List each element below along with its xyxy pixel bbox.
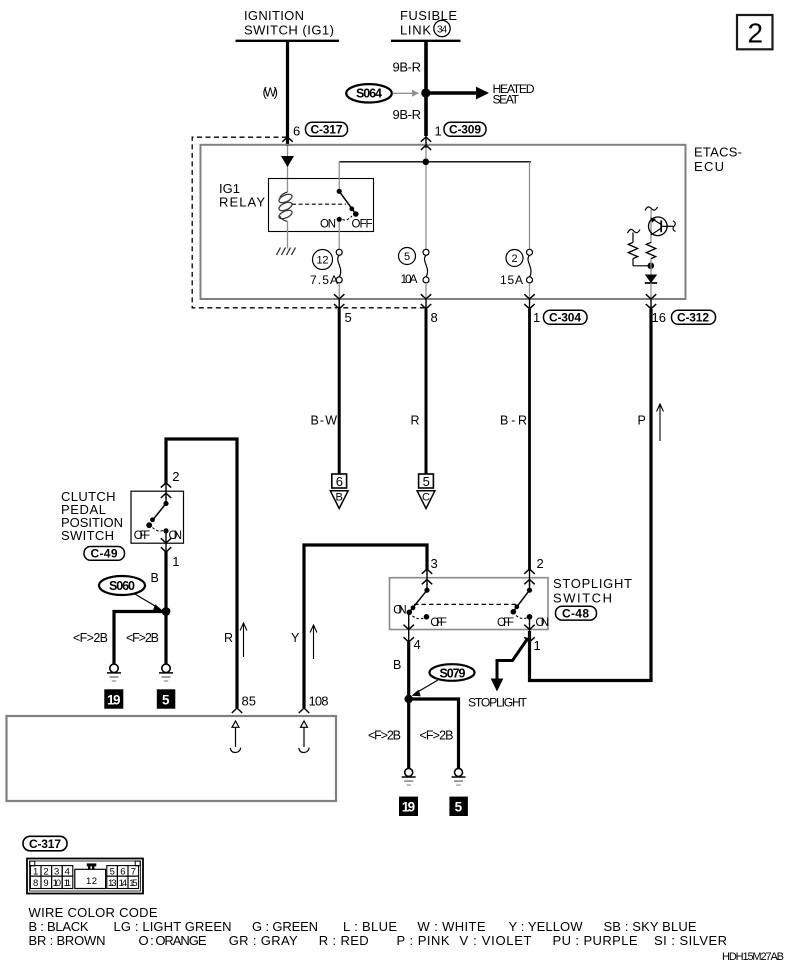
svg-text:C-48: C-48 <box>562 606 589 620</box>
diode D1 <box>645 275 657 284</box>
svg-text:10A: 10A <box>401 272 418 286</box>
connector C-49 <box>84 547 125 561</box>
wire branch to STOPLIGHT arrow <box>497 638 528 679</box>
svg-text:6: 6 <box>293 124 300 139</box>
connector C-317 cells row2 left <box>30 876 72 889</box>
wire2 internal drop to fuse 5 <box>425 146 427 250</box>
svg-text:C-317: C-317 <box>29 837 61 851</box>
wire ignition feed (W) <box>286 41 289 146</box>
svg-text:OFF: OFF <box>430 617 447 629</box>
svg-text:S079: S079 <box>440 667 466 681</box>
chevrons clutch pin 1 <box>161 538 171 552</box>
wire clutch pin2 to ECU pin85 top run <box>166 439 237 708</box>
stoplight switch box <box>390 578 549 630</box>
connector C-317 cells row1 right <box>107 866 139 878</box>
chevrons pin 16 C-312 <box>646 294 656 309</box>
svg-text:R: R <box>224 631 233 645</box>
ECU continuation box bottom left <box>7 716 337 801</box>
svg-text:ETACS-: ETACS- <box>694 145 742 160</box>
wire clutch pin1 down B <box>164 551 167 612</box>
svg-text:ON: ON <box>169 530 183 542</box>
wire branch to left ground <box>114 612 166 666</box>
arrow STOPLIGHT <box>491 679 504 692</box>
wire internal bus from relay to fuse2 branch <box>339 161 531 163</box>
relay dashed actuator link <box>292 203 346 205</box>
connector C-312 <box>672 310 716 324</box>
ground left clutch <box>107 664 121 681</box>
svg-text:O : ORANGE: O : ORANGE <box>139 933 207 948</box>
svg-text:13: 13 <box>108 878 117 889</box>
svg-text:SWITCH: SWITCH <box>61 528 114 543</box>
svg-text:SEAT: SEAT <box>493 93 520 107</box>
wire B-W pin5 to arrow 6B <box>338 309 341 474</box>
wire continues symbol pin 108 <box>299 721 309 753</box>
wire fuse5 to pin 8 <box>425 283 427 299</box>
svg-text:BR : BROWN: BR : BROWN <box>29 933 106 948</box>
IG1 RELAY box <box>269 179 374 232</box>
wire to diode <box>650 259 652 275</box>
connector C-48 <box>556 606 597 620</box>
wire B-R pin1 to stoplight pin2 <box>528 309 531 570</box>
svg-text:STOPLIGHT: STOPLIGHT <box>468 696 528 710</box>
svg-text:8: 8 <box>431 310 438 325</box>
svg-text:15A: 15A <box>500 273 523 287</box>
svg-text:B-R: B-R <box>500 414 527 428</box>
ground ref box 19 stoplight <box>399 797 418 816</box>
connector C-317 <box>306 122 348 136</box>
label STOPLIGHT SWITCH <box>553 576 632 606</box>
wire main to right ground <box>164 612 167 666</box>
chevron wire2 lower <box>421 145 431 150</box>
svg-text:B: B <box>336 492 343 504</box>
svg-text:3: 3 <box>431 556 438 571</box>
svg-text:OFF: OFF <box>497 617 514 629</box>
wire stoplight pin4 down B <box>407 642 410 699</box>
svg-text:STOPLIGHT: STOPLIGHT <box>553 576 632 591</box>
clutch switch contacts <box>146 497 168 545</box>
svg-text:B: B <box>393 658 401 672</box>
svg-text:ON: ON <box>320 219 336 231</box>
chevrons stoplight pin 4 <box>404 625 414 642</box>
chevron wire1 at dashed border <box>282 137 292 142</box>
chevron wire2 upper <box>421 137 431 142</box>
svg-text:OFF: OFF <box>134 530 151 542</box>
svg-text:16: 16 <box>652 310 666 325</box>
svg-text:IGNITION: IGNITION <box>244 8 304 23</box>
svg-text:FUSIBLE: FUSIBLE <box>400 8 457 23</box>
arrow S060 to junction <box>134 594 163 611</box>
svg-text:<F>2B: <F>2B <box>126 631 159 645</box>
svg-text:6: 6 <box>336 474 343 489</box>
chevrons stoplight pin 2 <box>524 569 534 584</box>
svg-text:LINK: LINK <box>400 23 431 38</box>
label CLUTCH PEDAL POSITION SWITCH <box>61 489 123 543</box>
transistor Q1 <box>649 217 676 236</box>
svg-text:9B-R: 9B-R <box>393 60 422 75</box>
fuse 5 <box>423 249 429 283</box>
svg-text:WIRE COLOR CODE: WIRE COLOR CODE <box>29 905 158 920</box>
fuse 12 <box>336 249 342 283</box>
dashed sub-module border <box>192 137 425 308</box>
splice S079 <box>430 664 475 681</box>
ground ref box 5 stoplight <box>449 797 468 816</box>
wire diode to pin 16 <box>650 283 652 299</box>
wire Y stoplight pin3 run <box>304 545 427 708</box>
label IG1 RELAY <box>219 181 265 210</box>
svg-text:HDH15M27AB: HDH15M27AB <box>722 951 784 963</box>
svg-text:5: 5 <box>404 251 410 263</box>
wire stoplight pin1 to P wire <box>530 631 652 681</box>
relay switch common lead <box>338 162 340 192</box>
svg-text:1: 1 <box>534 638 541 653</box>
fuse 2 number <box>506 250 523 267</box>
cut squiggle above left resistor <box>628 229 641 233</box>
wire fuse2 branch drop <box>529 162 531 250</box>
svg-text:5: 5 <box>345 310 352 325</box>
ground relay coil <box>277 248 296 256</box>
resistor center <box>646 242 655 258</box>
svg-text:V : VIOLET: V : VIOLET <box>460 933 532 948</box>
wire internal ignition lead <box>287 146 289 192</box>
resistor left <box>628 233 651 266</box>
label IGNITION SWITCH (IG1) <box>236 8 340 41</box>
fuse 2 <box>527 249 533 283</box>
svg-text:Y : YELLOW: Y : YELLOW <box>509 919 584 934</box>
svg-text:S060: S060 <box>109 579 135 593</box>
svg-text:P : PINK: P : PINK <box>397 933 450 948</box>
relay coil <box>278 192 294 222</box>
svg-text:B-W: B-W <box>311 414 338 428</box>
wire fusible link 9B-R upper <box>424 41 428 93</box>
svg-text:ON: ON <box>393 605 407 617</box>
svg-text:<F>2B: <F>2B <box>73 631 108 645</box>
svg-text:12: 12 <box>317 255 329 267</box>
svg-text:P: P <box>638 414 646 428</box>
svg-text:85: 85 <box>242 694 256 709</box>
connector C-317 cells row2 right <box>107 876 139 889</box>
svg-text:2: 2 <box>172 469 179 484</box>
label HEATED SEAT <box>493 82 535 107</box>
svg-text:9: 9 <box>43 878 48 889</box>
dashed mechanical link <box>414 603 516 605</box>
node junction resistors <box>648 263 655 270</box>
wire continuity segments at connector crossings <box>166 136 651 643</box>
svg-text:L : BLUE: L : BLUE <box>343 919 397 934</box>
svg-text:(W): (W) <box>263 85 279 100</box>
svg-text:108: 108 <box>309 694 329 709</box>
splice S064 <box>346 84 392 102</box>
clutch pedal position switch box <box>131 491 184 543</box>
svg-text:5: 5 <box>423 474 430 489</box>
arrow direction up beside Y <box>310 625 317 659</box>
svg-text:19: 19 <box>107 692 121 707</box>
svg-text:4: 4 <box>414 637 421 652</box>
svg-text:1: 1 <box>172 554 179 569</box>
stoplight switch left contacts <box>407 584 430 631</box>
arrow S079 to junction <box>412 680 439 696</box>
svg-text:LG : LIGHT GREEN: LG : LIGHT GREEN <box>114 919 232 934</box>
svg-text:R : RED: R : RED <box>319 933 369 948</box>
connector C-317 cells row1 left <box>30 866 72 878</box>
chevrons pin 1 C-304 <box>524 294 534 309</box>
arrow destination 6 B <box>330 474 348 509</box>
diode-arrow on ignition lead <box>281 156 294 167</box>
svg-text:G : GREEN: G : GREEN <box>252 919 318 934</box>
ground left stoplight <box>402 768 416 785</box>
ground ref box 19 <box>104 689 123 708</box>
node junction S079 <box>405 695 413 703</box>
arrow from S064 to node <box>393 90 420 97</box>
wire coil to ground <box>287 221 289 249</box>
wire relay to fuse 12 <box>338 222 340 250</box>
wire main to left ground <box>407 699 410 769</box>
svg-text:19: 19 <box>402 800 416 815</box>
svg-text:SWITCH: SWITCH <box>553 591 612 606</box>
svg-text:C-312: C-312 <box>677 311 709 325</box>
relay switch <box>337 189 359 222</box>
svg-text:SI : SILVER: SI : SILVER <box>654 933 727 948</box>
svg-text:<F>2B: <F>2B <box>368 729 401 743</box>
page number box 2 <box>737 15 773 49</box>
svg-text:OFF: OFF <box>352 219 373 231</box>
wire fuse12 to pin 5 <box>338 283 340 299</box>
connector C-317 bottom label <box>23 836 67 851</box>
svg-text:C-49: C-49 <box>91 547 118 561</box>
svg-text:C-304: C-304 <box>549 311 581 325</box>
svg-text:2: 2 <box>537 556 544 571</box>
svg-text:7.5A: 7.5A <box>310 273 338 287</box>
fuse 12 number <box>313 250 333 270</box>
ground right stoplight <box>452 768 466 785</box>
connector C-317 drawing <box>27 859 143 894</box>
wire color code line 1 <box>29 919 697 934</box>
cut squiggle above transistor <box>645 207 658 211</box>
wire color code line 2 <box>29 933 728 948</box>
svg-text:C: C <box>422 492 430 504</box>
svg-text:12: 12 <box>86 876 97 887</box>
svg-text:1: 1 <box>533 310 540 325</box>
svg-text:5: 5 <box>455 800 463 815</box>
wire P pin16 down <box>649 309 652 682</box>
ground ref box 5 <box>157 689 176 708</box>
stoplight switch right contacts <box>511 584 533 631</box>
arrow direction up beside P <box>657 404 664 441</box>
svg-text:Y: Y <box>291 631 300 645</box>
node junction S060 <box>162 607 171 616</box>
svg-text:GR : GRAY: GR : GRAY <box>229 933 298 948</box>
chevrons clutch pin 2 <box>161 483 171 498</box>
chevron pin 85 <box>232 708 242 713</box>
label FUSIBLE LINK 34 <box>391 8 461 41</box>
svg-text:ECU: ECU <box>694 159 724 174</box>
svg-text:2: 2 <box>512 253 518 265</box>
connector C-304 <box>544 310 588 324</box>
wire R pin8 to arrow 5C <box>425 309 428 474</box>
svg-text:W : WHITE: W : WHITE <box>418 919 486 934</box>
wire transistor feed <box>650 210 652 243</box>
arrow direction up beside R <box>240 623 247 657</box>
chevrons stoplight pin 3 <box>422 569 432 584</box>
svg-text:9B-R: 9B-R <box>393 107 422 122</box>
svg-text:B: B <box>151 571 159 585</box>
svg-text:ON: ON <box>536 617 550 629</box>
chevron pin 108 <box>299 708 309 713</box>
arrow destination 5 C <box>417 474 435 509</box>
svg-text:5: 5 <box>162 692 170 707</box>
wire branch to right ground <box>409 699 459 769</box>
wire continues symbol pin 85 <box>230 721 240 753</box>
wire fuse2 to pin 1 <box>529 283 531 299</box>
chevrons stoplight pin 1 <box>524 625 534 642</box>
node splice junction on 9B-R <box>421 88 430 97</box>
connector C-309 <box>444 122 486 136</box>
fuse 5 number <box>399 248 416 265</box>
ground right clutch <box>159 664 173 681</box>
svg-text:11: 11 <box>64 878 72 889</box>
svg-text:B : BLACK: B : BLACK <box>29 919 89 934</box>
svg-text:C-309: C-309 <box>449 123 481 137</box>
chevrons pin 8 <box>421 294 431 309</box>
ETACS-ECU box <box>201 145 686 299</box>
svg-text:PU : PURPLE: PU : PURPLE <box>553 933 638 948</box>
svg-text:SWITCH (IG1): SWITCH (IG1) <box>244 23 334 38</box>
svg-text:<F>2B: <F>2B <box>420 729 454 743</box>
svg-text:1: 1 <box>435 124 442 139</box>
svg-text:10: 10 <box>53 878 62 889</box>
svg-text:34: 34 <box>437 24 447 35</box>
svg-text:R: R <box>411 414 420 428</box>
svg-text:C-317: C-317 <box>311 123 343 137</box>
svg-text:RELAY: RELAY <box>219 195 265 210</box>
wire 9B-R lower <box>424 93 428 136</box>
wire arrow to HEATED SEAT <box>426 87 489 100</box>
svg-text:15: 15 <box>129 878 138 889</box>
svg-text:S064: S064 <box>356 87 382 101</box>
node junction bus/wire2 <box>423 159 430 166</box>
splice S060 <box>99 576 145 595</box>
svg-text:2: 2 <box>748 18 764 49</box>
svg-text:SB : SKY BLUE: SB : SKY BLUE <box>604 919 697 934</box>
label ETACS-ECU <box>694 145 742 175</box>
svg-text:8: 8 <box>33 878 38 889</box>
svg-text:14: 14 <box>119 878 128 889</box>
chevrons pin 5 <box>334 294 344 309</box>
